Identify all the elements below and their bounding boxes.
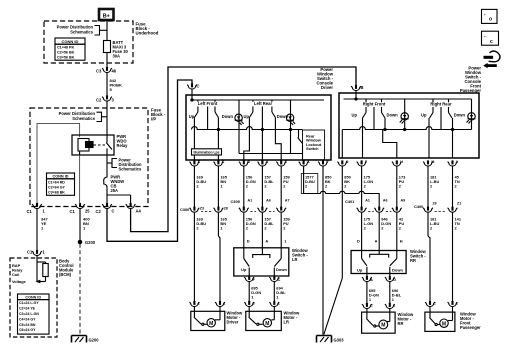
wire pin 1 leg (up output) bbox=[193, 118, 195, 161]
svg-text:M: M bbox=[442, 321, 446, 327]
svg-text:1: 1 bbox=[220, 226, 223, 231]
fuse block underhood (dashed box) bbox=[44, 21, 133, 63]
connector LR switch out F bbox=[244, 276, 255, 282]
svg-text:E: E bbox=[198, 160, 201, 164]
svg-text:C2=56 BK: C2=56 BK bbox=[57, 51, 75, 55]
window switch RR (box) bbox=[351, 251, 406, 274]
svg-text:Up: Up bbox=[421, 112, 427, 117]
connector LR switch out C bbox=[269, 276, 280, 282]
label Power Window Switch - Console Front Passenger bbox=[460, 66, 482, 94]
wire 694 D-BL to LR motor bbox=[274, 282, 286, 302]
svg-text:A: A bbox=[265, 239, 268, 244]
wire RF up leg bbox=[362, 118, 364, 158]
wire fuse to connector C3 bbox=[106, 53, 108, 69]
connector RR motor pin 1 bbox=[385, 303, 395, 312]
wire 347 YE 1 (to BCM) bbox=[37, 209, 48, 250]
svg-text:1: 1 bbox=[284, 239, 287, 244]
wire col3 156 D-GN upper bbox=[244, 166, 256, 207]
svg-text:C: C bbox=[278, 278, 281, 282]
relay contact dashes bbox=[94, 144, 106, 146]
lamp illumination RF bbox=[400, 99, 409, 130]
svg-text:2: 2 bbox=[344, 184, 347, 189]
svg-text:2: 2 bbox=[364, 226, 367, 231]
conn id table (underhood) bbox=[55, 38, 85, 60]
svg-text:Schematics: Schematics bbox=[72, 116, 95, 121]
connector pin G col3 bbox=[239, 160, 249, 166]
svg-text:C5=24 BN: C5=24 BN bbox=[19, 323, 36, 327]
node tap Power Distribution Schematics (IP lower) bbox=[107, 158, 142, 172]
wire col10 lower to RR switch pin H bbox=[397, 213, 405, 251]
svg-text:o: o bbox=[489, 17, 492, 23]
wire 695 D-GN to RR motor bbox=[367, 282, 379, 304]
wire col1 lower to driver motor bbox=[194, 213, 206, 302]
relay switch blade bbox=[106, 135, 108, 143]
wire RR up leg bbox=[428, 118, 430, 158]
svg-text:Driver: Driver bbox=[321, 85, 333, 90]
svg-text:Underhood: Underhood bbox=[136, 31, 159, 36]
svg-text:2: 2 bbox=[283, 184, 286, 189]
fuse BATT MAXI Fuse 30 30A bbox=[104, 40, 129, 59]
svg-text:A6: A6 bbox=[266, 199, 271, 203]
inline connector C305 (cols 3-5) bbox=[231, 199, 290, 213]
wire col11 lower to front passenger motor bbox=[428, 213, 439, 302]
svg-text:C3=68 BK: C3=68 BK bbox=[48, 190, 65, 194]
wire RR down leg bbox=[452, 118, 454, 158]
svg-text:1: 1 bbox=[393, 304, 395, 308]
connector driver motor pin 1 bbox=[215, 301, 225, 311]
svg-text:1: 1 bbox=[278, 302, 280, 306]
conn id table (IP) bbox=[47, 173, 75, 195]
svg-text:C: C bbox=[222, 160, 225, 164]
svg-text:2: 2 bbox=[455, 226, 458, 231]
wire col10 173 PU upper bbox=[397, 166, 406, 207]
svg-text:2: 2 bbox=[196, 184, 199, 189]
lamp illumination LR bbox=[286, 100, 295, 154]
wire 695 D-GN to LR motor bbox=[249, 282, 261, 302]
svg-text:2: 2 bbox=[198, 302, 200, 306]
wire CB to output branch bbox=[106, 191, 108, 205]
icon connector view 1 bbox=[482, 9, 498, 23]
ground G200 bbox=[72, 336, 100, 343]
svg-text:CONN ID: CONN ID bbox=[52, 175, 68, 179]
svg-text:1: 1 bbox=[43, 250, 46, 255]
wire col8 850 BK ground (right box, bends to G303) bbox=[324, 166, 351, 334]
svg-text:C3=56 BK: C3=56 BK bbox=[57, 56, 75, 60]
svg-text:F: F bbox=[326, 160, 329, 164]
svg-text:C3=24 L-GN: C3=24 L-GN bbox=[19, 312, 39, 316]
svg-text:29: 29 bbox=[433, 202, 437, 206]
svg-text:C1: C1 bbox=[27, 250, 33, 255]
wire pin 3 leg bbox=[244, 118, 250, 161]
svg-text:Passenger: Passenger bbox=[460, 325, 481, 330]
svg-text:1: 1 bbox=[223, 302, 225, 306]
connector RR switch out A bbox=[362, 274, 373, 282]
wire into IP fuse block bbox=[106, 101, 108, 135]
svg-text:2: 2 bbox=[399, 226, 402, 231]
svg-text:Right Front: Right Front bbox=[363, 102, 386, 107]
window motor LR (box) bbox=[246, 311, 281, 330]
svg-text:Up: Up bbox=[352, 112, 358, 117]
icon page arrows bbox=[483, 51, 500, 68]
svg-text:I/P: I/P bbox=[151, 117, 156, 122]
connector break B (right switch feed) bbox=[351, 85, 363, 93]
svg-text:C: C bbox=[433, 302, 436, 306]
svg-text:⌐: ⌐ bbox=[484, 12, 487, 17]
svg-text:A1: A1 bbox=[248, 199, 253, 203]
connector pin A col4 bbox=[258, 160, 268, 166]
svg-text:M: M bbox=[381, 323, 385, 329]
circuit breaker PWR WNDW CB 25A bbox=[104, 175, 125, 194]
svg-text:C306: C306 bbox=[180, 207, 190, 212]
svg-text:Down: Down bbox=[276, 267, 287, 272]
svg-text:M: M bbox=[209, 321, 213, 327]
wire B+ feed down from battery bbox=[106, 20, 108, 40]
connector row pins below right box bbox=[337, 160, 459, 166]
switch right front (up/down) bbox=[352, 102, 399, 130]
battery B+ bbox=[99, 9, 114, 20]
BCM internal: RAP relay coil voltage driver bbox=[12, 256, 48, 284]
wire col3 lower to LR switch pin D bbox=[244, 213, 256, 248]
wire lower rail left box bbox=[239, 153, 303, 155]
relay PWR WDO bbox=[72, 135, 114, 155]
svg-text:G: G bbox=[247, 160, 250, 164]
wire col9 lower to RR switch pin D bbox=[357, 213, 373, 251]
connector BCM C1 pin 1 bbox=[27, 250, 46, 256]
svg-text:Coil: Coil bbox=[12, 272, 19, 277]
svg-text:Schematics: Schematics bbox=[70, 29, 93, 34]
node G200 splice dot bbox=[78, 240, 95, 245]
node tap Power Distribution Schematics (underhood) bbox=[57, 25, 107, 35]
node tap Power Distribution Schematics (IP top) bbox=[59, 111, 107, 121]
svg-text:C1=24 L-GY: C1=24 L-GY bbox=[19, 301, 39, 305]
svg-text:C2: C2 bbox=[96, 209, 102, 214]
svg-text:C1: C1 bbox=[27, 209, 33, 214]
svg-text:C: C bbox=[112, 208, 115, 213]
wire pin 4 leg bbox=[261, 130, 263, 160]
wire col6 1577 D-BU (lockout, boxed label, merges to ground col) bbox=[301, 166, 379, 207]
svg-text:C1: C1 bbox=[70, 209, 76, 214]
wire pin 2 leg (down output) bbox=[217, 118, 219, 161]
svg-text:25: 25 bbox=[85, 208, 90, 213]
svg-text:V: V bbox=[456, 160, 459, 164]
svg-text:F: F bbox=[365, 160, 368, 164]
connector LR motor pin 1 bbox=[269, 301, 279, 311]
wire 696 D-BL to RR motor bbox=[390, 282, 402, 304]
svg-text:G303: G303 bbox=[334, 338, 345, 343]
svg-text:Up: Up bbox=[357, 267, 363, 272]
svg-text:2: 2 bbox=[325, 184, 328, 189]
connector RR switch out G bbox=[385, 274, 396, 282]
connector C1 pin 25 (coil ground out) bbox=[70, 203, 91, 214]
svg-text:1: 1 bbox=[83, 226, 86, 231]
conn id table (BCM) bbox=[18, 294, 50, 334]
svg-text:M: M bbox=[265, 321, 269, 327]
connector pin E col1 bbox=[190, 160, 200, 166]
wire col4 157 D-BL upper bbox=[262, 166, 274, 207]
svg-text:G200: G200 bbox=[85, 240, 96, 245]
svg-text:5: 5 bbox=[110, 87, 113, 92]
svg-text:Z3: Z3 bbox=[200, 207, 204, 211]
wire col9b lower to RR switch pin A bbox=[375, 213, 392, 251]
svg-text:A6: A6 bbox=[383, 199, 388, 203]
connector C3 pin 46 bbox=[96, 67, 117, 74]
wire ground run (dashed) bbox=[79, 244, 81, 335]
label Power Window Switch - Console Driver bbox=[316, 67, 333, 90]
svg-text:B+: B+ bbox=[103, 13, 110, 19]
svg-text:2: 2 bbox=[305, 184, 308, 189]
svg-text:A: A bbox=[307, 160, 310, 164]
connector pin A4 (main out 2) bbox=[126, 203, 142, 213]
svg-text:1: 1 bbox=[276, 295, 279, 300]
connector FP motor pin C bbox=[425, 301, 436, 312]
svg-text:C4=24 GY: C4=24 GY bbox=[19, 317, 36, 321]
svg-text:1: 1 bbox=[220, 184, 223, 189]
svg-text:C2: C2 bbox=[96, 97, 102, 102]
wire col12 45 TN upper bbox=[453, 166, 460, 207]
wire col9 175 L-GN upper bbox=[362, 166, 374, 207]
lamp illumination RR bbox=[467, 99, 476, 130]
svg-text:LR: LR bbox=[284, 319, 290, 324]
svg-text:LR: LR bbox=[292, 257, 298, 262]
svg-text:2: 2 bbox=[196, 226, 199, 231]
lamp illumination LF bbox=[235, 100, 244, 154]
svg-text:F: F bbox=[253, 278, 256, 282]
svg-text:2: 2 bbox=[264, 184, 267, 189]
wire top rail left box bbox=[191, 95, 193, 100]
svg-text:A: A bbox=[266, 160, 269, 164]
window motor driver (box) bbox=[191, 311, 225, 330]
svg-text:2: 2 bbox=[264, 226, 267, 231]
svg-text:Z1: Z1 bbox=[457, 202, 461, 206]
wire main feed loop outer (to right switch) bbox=[131, 67, 356, 232]
svg-text:Illumination Lps: Illumination Lps bbox=[194, 150, 220, 154]
svg-text:C400: C400 bbox=[414, 204, 423, 209]
illumination lamps label box bbox=[192, 149, 222, 155]
svg-text:B: B bbox=[361, 85, 364, 90]
svg-text:1: 1 bbox=[392, 297, 395, 302]
svg-text:Down: Down bbox=[387, 112, 399, 117]
svg-text:H: H bbox=[400, 160, 403, 164]
wire col2 165 BN upper bbox=[218, 166, 227, 207]
svg-text:2: 2 bbox=[430, 184, 433, 189]
svg-text:Schematics: Schematics bbox=[119, 167, 142, 172]
wire relay to CB bbox=[106, 155, 108, 175]
svg-text:D: D bbox=[357, 239, 360, 244]
svg-text:A9: A9 bbox=[401, 199, 406, 203]
svg-text:Down: Down bbox=[222, 114, 234, 119]
wire col1 169 D-BU upper bbox=[194, 166, 206, 207]
window switch LR (box) bbox=[234, 248, 289, 276]
connector C2 pin 3 bbox=[96, 95, 115, 102]
connector row pins below left box bbox=[190, 160, 330, 166]
svg-text:2: 2 bbox=[283, 226, 286, 231]
svg-text:2: 2 bbox=[399, 184, 402, 189]
svg-text:2: 2 bbox=[430, 226, 433, 231]
wire col5 159 PU upper bbox=[281, 166, 290, 207]
svg-text:CONN ID: CONN ID bbox=[25, 295, 41, 299]
inline connector C401 (cols 9-10) bbox=[345, 199, 405, 213]
power window switch console driver (box) bbox=[186, 95, 331, 160]
svg-text:D: D bbox=[247, 239, 250, 244]
power window switch console front passenger (box) bbox=[339, 93, 479, 158]
wire mid rail left box bbox=[192, 127, 303, 130]
svg-text:2: 2 bbox=[246, 226, 249, 231]
svg-text:25A: 25A bbox=[111, 188, 119, 193]
svg-text:G200: G200 bbox=[89, 338, 100, 343]
wire ground leg right box bbox=[341, 130, 343, 159]
svg-text:2: 2 bbox=[455, 184, 458, 189]
svg-text:A: A bbox=[370, 278, 373, 282]
svg-text:Left Front: Left Front bbox=[198, 101, 218, 106]
wire mid rail right box bbox=[342, 127, 471, 130]
svg-text:C2=24 YE: C2=24 YE bbox=[19, 307, 36, 311]
svg-text:C: C bbox=[370, 304, 373, 308]
connector pin M col11 bbox=[423, 160, 433, 166]
wire coil low side to relay bbox=[79, 155, 81, 205]
svg-text:A4: A4 bbox=[136, 208, 142, 213]
connector pin F col7 bbox=[318, 160, 328, 166]
connector pin A col6 bbox=[299, 160, 309, 166]
svg-text:1: 1 bbox=[456, 302, 458, 306]
svg-text:Right Rear: Right Rear bbox=[430, 102, 452, 107]
svg-text:Driver: Driver bbox=[227, 319, 239, 324]
wire top rail right box bbox=[355, 93, 357, 99]
svg-text:C2=64 GY: C2=64 GY bbox=[48, 185, 65, 189]
svg-text:RR: RR bbox=[410, 258, 416, 263]
wire 842 PK/BK 5 bbox=[107, 73, 122, 97]
ground G303 bbox=[317, 336, 345, 343]
wire col5 lower to LR switch pin 1 bbox=[281, 213, 290, 248]
svg-text:c: c bbox=[490, 39, 493, 45]
wire col7 850 BK ground (left box) bbox=[323, 166, 332, 334]
connector pin E col5 bbox=[276, 160, 286, 166]
svg-text:Up: Up bbox=[241, 267, 247, 272]
switch left rear (up/down) bbox=[244, 101, 289, 130]
svg-text:46: 46 bbox=[112, 69, 117, 74]
svg-text:Voltage: Voltage bbox=[12, 279, 27, 284]
wire col12 lower to front passenger motor bbox=[453, 213, 462, 302]
svg-text:Up: Up bbox=[244, 114, 250, 119]
svg-text:2: 2 bbox=[364, 184, 367, 189]
icon connector view 2 bbox=[482, 31, 499, 45]
wire relay coil feed (from BCM connector C1 up and over to coil) bbox=[37, 124, 80, 205]
svg-text:Down: Down bbox=[392, 267, 403, 272]
connector pin F col9 bbox=[357, 160, 367, 166]
switch right rear (up/down) bbox=[421, 102, 465, 130]
connector break C (left switch feed) bbox=[187, 83, 199, 95]
connector RR motor pin C bbox=[362, 303, 373, 312]
svg-text:C305: C305 bbox=[231, 199, 241, 204]
svg-text:1: 1 bbox=[369, 297, 372, 302]
svg-text:G: G bbox=[346, 160, 349, 164]
node hop loops and junctions left box bbox=[217, 128, 291, 130]
svg-text:Passenger: Passenger bbox=[460, 88, 482, 93]
svg-text:1: 1 bbox=[41, 226, 44, 231]
connector pin C col2 bbox=[214, 160, 224, 166]
wire 400 BN 1 (to ground splice) bbox=[80, 209, 90, 242]
svg-text:C401: C401 bbox=[345, 199, 355, 204]
inline connector C306 (cols 1-2) bbox=[180, 207, 228, 213]
connector pin H col10 bbox=[392, 160, 402, 166]
svg-text:C6=24 GY: C6=24 GY bbox=[19, 328, 36, 332]
svg-text:A1: A1 bbox=[365, 199, 370, 203]
svg-text:C1=64 RD: C1=64 RD bbox=[48, 180, 65, 184]
node hop loops and junctions right box bbox=[384, 128, 454, 130]
wire col11 181 L-BU upper bbox=[428, 166, 439, 207]
switch window lockout bbox=[298, 130, 325, 161]
svg-text:H: H bbox=[400, 239, 403, 244]
connector C2 pin C (main out) bbox=[96, 203, 115, 214]
svg-text:A: A bbox=[375, 239, 378, 244]
svg-text:Left Rear: Left Rear bbox=[254, 101, 273, 106]
window motor RR (box) bbox=[362, 312, 396, 333]
svg-text:Relay: Relay bbox=[117, 143, 129, 148]
svg-text:2: 2 bbox=[246, 184, 249, 189]
body control module BCM (dashed box) bbox=[10, 258, 57, 337]
connector C1 pin 1 (coil feed out) bbox=[27, 203, 46, 214]
svg-text:3: 3 bbox=[112, 97, 115, 102]
wire label ticks left box bbox=[197, 100, 199, 102]
svg-text:(BCM): (BCM) bbox=[59, 272, 72, 277]
fuse block IP (dashed box) bbox=[30, 108, 148, 207]
svg-text:Down: Down bbox=[454, 112, 466, 117]
svg-text:Switch: Switch bbox=[306, 146, 319, 151]
wire col2 lower to driver motor bbox=[218, 213, 227, 302]
inline connector C400 (cols 11-12) bbox=[414, 202, 461, 213]
wire col4 lower to LR switch pin A bbox=[262, 213, 274, 248]
connector pin G col8 bbox=[337, 160, 347, 166]
svg-text:C1=48 PK: C1=48 PK bbox=[57, 46, 74, 50]
svg-text:CONN ID: CONN ID bbox=[62, 39, 79, 44]
wire label ticks right box bbox=[365, 99, 367, 102]
svg-text:3: 3 bbox=[253, 302, 255, 306]
connector pin V col12 bbox=[448, 160, 458, 166]
svg-text:1: 1 bbox=[43, 208, 46, 213]
relay coil bbox=[78, 139, 89, 152]
wire RF down leg jog bbox=[384, 118, 386, 130]
connector driver motor pin 2 bbox=[190, 301, 200, 311]
svg-text:M: M bbox=[431, 160, 434, 164]
svg-text:30A: 30A bbox=[113, 53, 121, 58]
window motor front passenger (box) bbox=[425, 312, 455, 331]
svg-text:1: 1 bbox=[251, 295, 254, 300]
svg-text:2: 2 bbox=[381, 226, 384, 231]
svg-text:C3: C3 bbox=[96, 69, 102, 74]
wire main feed loop inner (to left switch) bbox=[107, 80, 192, 241]
svg-text:C: C bbox=[197, 84, 200, 89]
switch left front (up/down) bbox=[189, 101, 234, 130]
svg-text:E: E bbox=[285, 160, 288, 164]
svg-text:G: G bbox=[393, 278, 396, 282]
svg-text:28: 28 bbox=[224, 207, 228, 211]
connector LR motor pin 3 bbox=[244, 301, 254, 311]
svg-text:RR: RR bbox=[398, 321, 404, 326]
svg-text:⌐: ⌐ bbox=[484, 34, 487, 39]
svg-text:A7: A7 bbox=[285, 199, 290, 203]
wire pin 5 leg bbox=[275, 118, 281, 161]
connector FP motor pin 1 bbox=[448, 301, 458, 312]
